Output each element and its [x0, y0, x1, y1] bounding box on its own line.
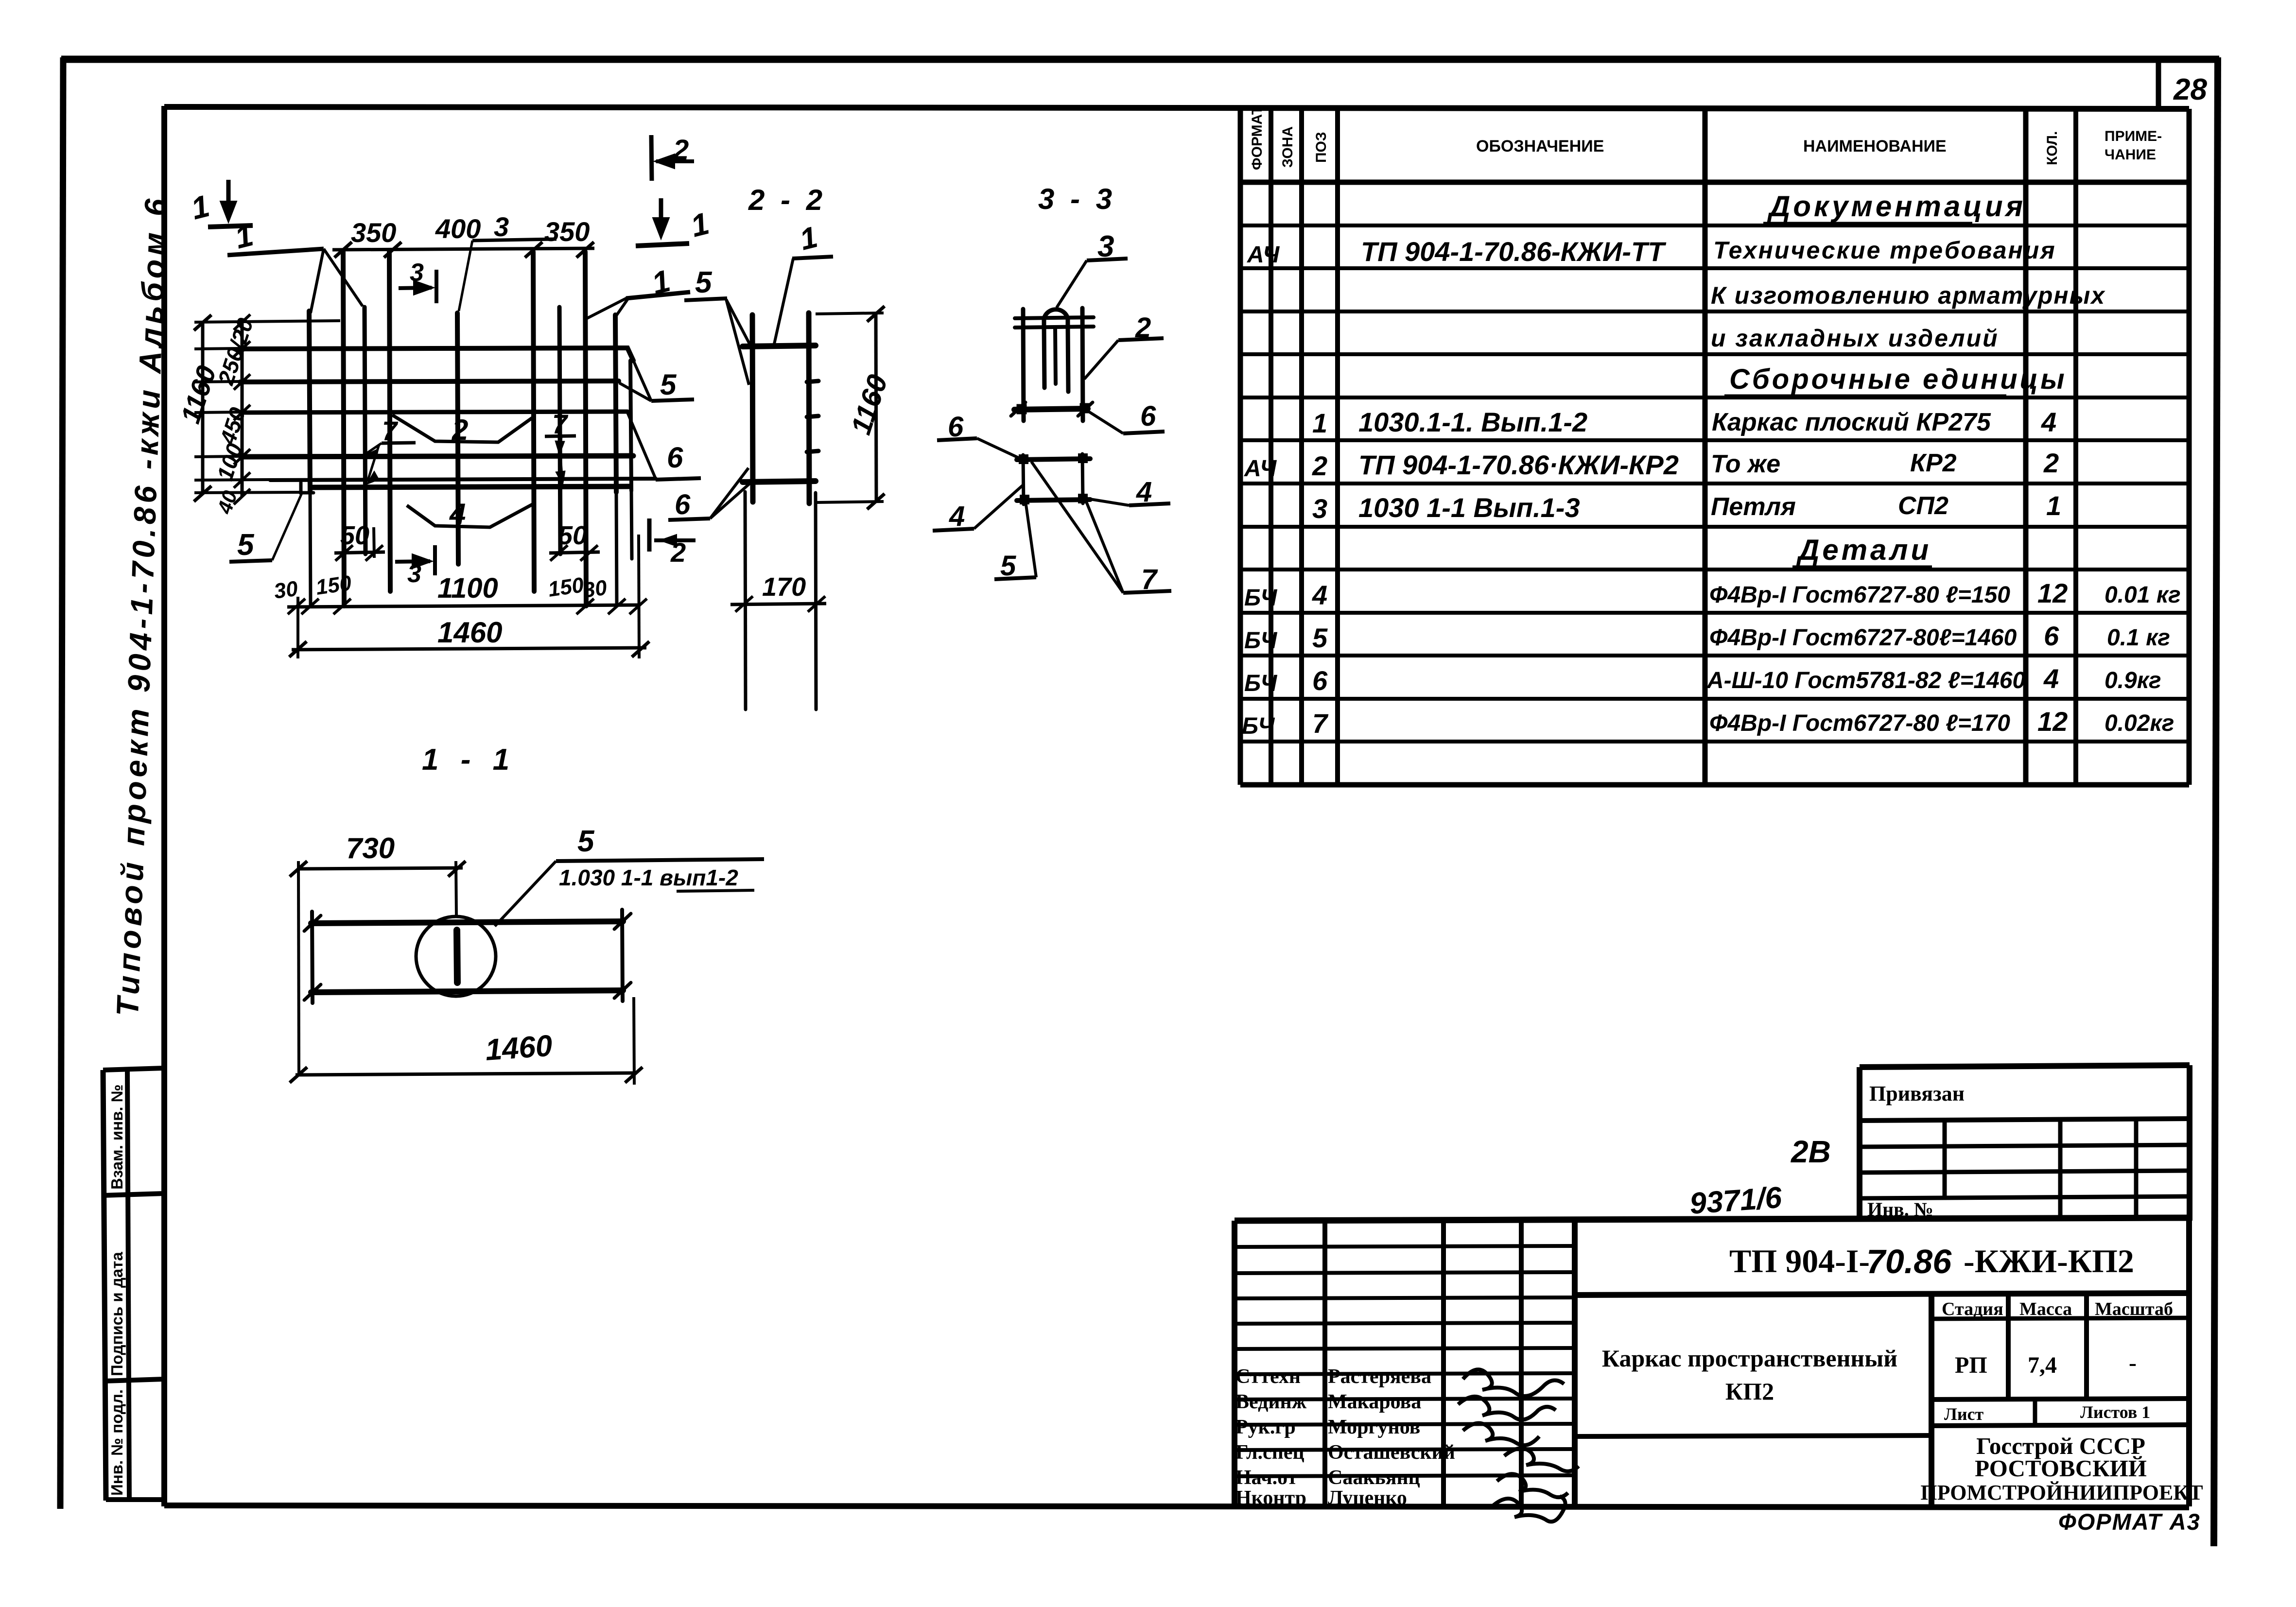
wire H2 — [240, 381, 619, 382]
bar V2a — [343, 252, 344, 606]
leader 5 right-mid — [619, 362, 694, 401]
svg-text:БЧ: БЧ — [1242, 713, 1275, 739]
section top chord — [743, 346, 816, 346]
svg-text:Луценко: Луценко — [1328, 1487, 1407, 1509]
dim 1160 (section 2-2) — [816, 306, 885, 509]
svg-text:Макарова: Макарова — [1328, 1391, 1421, 1413]
svg-text:3: 3 — [494, 211, 509, 242]
leader 4 right (mesh square) — [1087, 499, 1170, 505]
svg-text:3: 3 — [1312, 493, 1327, 524]
svg-text:30: 30 — [582, 575, 609, 602]
svg-text:Сборочные единицы: Сборочные единицы — [1729, 363, 2067, 395]
leader 6 right (H5 shelf) — [627, 413, 701, 480]
svg-text:ТП 904-I-: ТП 904-I- — [1729, 1243, 1870, 1279]
extension verticals below — [745, 492, 746, 709]
svg-text:ТП 904-1-70.86-КЖИ-ТТ: ТП 904-1-70.86-КЖИ-ТТ — [1361, 236, 1667, 267]
svg-text:Моргунов: Моргунов — [1328, 1416, 1420, 1438]
leader 7 right — [545, 436, 576, 485]
name cell right — [1929, 1294, 1934, 1506]
loop leg left — [1044, 325, 1044, 388]
leader 6 (section 3-3 top) — [1089, 412, 1165, 433]
svg-text:А-Ш-10 Гост5781-82 ℓ=1460: А-Ш-10 Гост5781-82 ℓ=1460 — [1706, 668, 2026, 693]
svg-text:БЧ: БЧ — [1244, 671, 1277, 696]
table vertical: oboznachenie col — [1703, 108, 1708, 785]
leader 2 (section 3-3) — [1084, 338, 1164, 379]
right outline V8 — [630, 361, 631, 491]
inner frame bottom — [164, 1505, 2189, 1507]
mesh square (section 3-3 bottom) — [1017, 454, 1090, 504]
leader 5 bottom-left — [229, 493, 302, 562]
svg-text:НАИМЕНОВАНИЕ: НАИМЕНОВАНИЕ — [1803, 137, 1947, 156]
section marker 1 top-left — [208, 180, 253, 227]
svg-text:АЧ: АЧ — [1247, 242, 1280, 268]
svg-text:7,4: 7,4 — [2028, 1352, 2057, 1378]
svg-text:6: 6 — [1312, 665, 1328, 696]
svg-text:Лист: Лист — [1944, 1404, 1984, 1424]
section marker 1 top-right — [636, 198, 689, 246]
svg-text:ЗОНА: ЗОНА — [1280, 126, 1296, 168]
list row bottom — [1931, 1425, 2189, 1426]
svg-text:Инв. № подл.: Инв. № подл. — [108, 1389, 126, 1496]
svg-text:400: 400 — [435, 213, 481, 244]
svg-text:1030 1-1 Вып.1-3: 1030 1-1 Вып.1-3 — [1358, 492, 1580, 523]
stadia header underlines — [1931, 1318, 2189, 1319]
svg-text:9371/6: 9371/6 — [1688, 1181, 1783, 1221]
loop frame left — [1023, 309, 1024, 421]
svg-text:Листов 1: Листов 1 — [2080, 1402, 2150, 1422]
bar V6b — [585, 252, 586, 606]
svg-text:Технические требования: Технические требования — [1713, 237, 2056, 264]
svg-text:Ф4Вр-I Гост6727-80 ℓ=150: Ф4Вр-I Гост6727-80 ℓ=150 — [1709, 582, 2010, 608]
bar top line — [311, 921, 623, 923]
signature scribbles — [1458, 1369, 1579, 1521]
outline corner bottom-left — [301, 483, 313, 493]
leader 7 left — [364, 443, 416, 484]
svg-text:3: 3 — [1097, 230, 1114, 263]
bar V5 — [533, 252, 534, 591]
svg-text:Рук.гр: Рук.гр — [1235, 1416, 1296, 1438]
stub lines — [194, 321, 340, 322]
svg-text:0.9кг: 0.9кг — [2105, 668, 2161, 693]
bottom bar — [1014, 409, 1088, 410]
top wires — [1015, 317, 1094, 318]
chain ticks — [234, 314, 250, 330]
svg-text:7: 7 — [1312, 708, 1329, 739]
svg-text:5: 5 — [237, 528, 255, 562]
svg-text:Масштаб: Масштаб — [2095, 1299, 2173, 1319]
table bottom — [1240, 782, 2189, 788]
bar V4 — [457, 313, 458, 564]
table vertical: format col — [1269, 108, 1273, 785]
underline dokumentacija — [1763, 222, 1972, 225]
svg-text:2: 2 — [452, 414, 468, 446]
svg-text:Вединж: Вединж — [1235, 1391, 1307, 1413]
title block top — [1235, 1218, 2189, 1221]
svg-text:350: 350 — [351, 217, 396, 248]
inner frame top — [164, 107, 2189, 109]
list row top — [1931, 1399, 2189, 1400]
svg-text:0.1 кг: 0.1 кг — [2107, 625, 2170, 651]
underline sborochnye — [1724, 395, 2006, 398]
dim 1460 (view 1-1) — [290, 997, 643, 1085]
svg-text:4: 4 — [949, 501, 965, 532]
sidebar divider 1 — [104, 1193, 164, 1195]
wire H3 — [242, 412, 627, 413]
svg-text:12: 12 — [2037, 578, 2068, 608]
svg-text:-: - — [2129, 1350, 2137, 1376]
svg-text:ПОЗ: ПОЗ — [1313, 132, 1329, 163]
svg-text:6: 6 — [667, 441, 683, 474]
svg-text:0.02кг: 0.02кг — [2105, 710, 2174, 736]
svg-text:1 - 1: 1 - 1 — [422, 743, 516, 777]
svg-text:Ф4Вр-I Гост6727-80ℓ=1460: Ф4Вр-I Гост6727-80ℓ=1460 — [1709, 625, 2017, 651]
svg-text:4: 4 — [449, 498, 466, 530]
svg-text:АЧ: АЧ — [1244, 456, 1277, 482]
svg-text:ЧАНИЕ: ЧАНИЕ — [2105, 147, 2156, 163]
TITLE BLOCK — [1235, 1218, 2189, 1506]
leader 3 (section 3-3) — [1057, 259, 1128, 308]
svg-text:150: 150 — [314, 571, 353, 600]
section marker 2 bottom-right — [649, 518, 696, 552]
svg-text:РОСТОВСКИЙ: РОСТОВСКИЙ — [1975, 1455, 2147, 1482]
table vertical: zona col — [1299, 108, 1304, 785]
bar V1 — [309, 311, 310, 492]
svg-text:7: 7 — [552, 409, 569, 439]
section bottom chord — [743, 481, 816, 482]
section marker 3 bottom — [395, 545, 435, 575]
table vertical: left edge — [1238, 108, 1243, 785]
svg-text:Инв. №: Инв. № — [1867, 1198, 1933, 1220]
svg-text:170: 170 — [762, 572, 806, 602]
svg-text:1030.1-1. Вып.1-2: 1030.1-1. Вып.1-2 — [1358, 407, 1587, 437]
sidebar top — [103, 1068, 164, 1070]
svg-text:5: 5 — [577, 825, 595, 858]
svg-text:То же: То же — [1711, 450, 1780, 478]
svg-text:5: 5 — [1312, 622, 1328, 653]
svg-text:350: 350 — [544, 216, 590, 247]
PRIVYAZAN BOX — [1860, 1065, 2190, 1221]
dim 1460 — [289, 641, 649, 657]
SIDEBAR — [103, 1068, 164, 1501]
name cell bottom — [1575, 1435, 1931, 1436]
svg-text:5: 5 — [695, 266, 713, 299]
leader 5 (view 1-1) — [495, 859, 764, 926]
wire H4 — [242, 456, 633, 457]
svg-text:Осташевский: Осташевский — [1328, 1441, 1455, 1464]
svg-text:1460: 1460 — [437, 616, 502, 649]
table vertical: right edge — [2187, 109, 2192, 785]
extension verticals — [296, 597, 299, 658]
svg-text:1.030 1-1 вып1-2: 1.030 1-1 вып1-2 — [559, 865, 738, 890]
section marker 3 top — [399, 270, 436, 303]
svg-text:Сттехн: Сттехн — [1235, 1365, 1301, 1388]
sidebar divider 2 — [104, 1379, 164, 1381]
bottom 50 dims — [334, 527, 600, 561]
svg-text:ОБОЗНАЧЕНИЕ: ОБОЗНАЧЕНИЕ — [1476, 137, 1604, 156]
outer border top — [61, 56, 2219, 63]
svg-text:50: 50 — [558, 521, 587, 550]
bar bottom line — [311, 990, 623, 992]
svg-text:3 - 3: 3 - 3 — [1038, 183, 1116, 215]
bar V2b — [365, 307, 365, 554]
inner wire — [1055, 328, 1056, 384]
weld circle — [416, 916, 496, 996]
svg-text:1: 1 — [2046, 490, 2061, 521]
svg-text:4: 4 — [1312, 580, 1327, 610]
svg-text:Ф4Вр-I Гост6727-80 ℓ=170: Ф4Вр-I Гост6727-80 ℓ=170 — [1709, 710, 2010, 736]
bar V7 — [615, 315, 616, 492]
left end vertical — [312, 912, 313, 1003]
svg-text:6: 6 — [948, 411, 964, 443]
svg-text:Петля: Петля — [1711, 493, 1796, 521]
sidebar left vertical — [103, 1070, 106, 1501]
leader 3 to middle bar — [459, 239, 557, 311]
leader 4 left (mesh square) — [933, 485, 1023, 531]
svg-text:2В: 2В — [1791, 1134, 1831, 1169]
svg-text:Взам. инв. №: Взам. инв. № — [108, 1084, 126, 1190]
svg-text:3: 3 — [407, 560, 421, 588]
svg-text:ФОРМАТ: ФОРМАТ — [1249, 106, 1265, 170]
loop frame right — [1082, 308, 1083, 421]
svg-text:5: 5 — [1000, 550, 1016, 582]
leader 6 lower (points to section 2-2) — [668, 468, 751, 520]
loop arc — [1044, 310, 1068, 325]
svg-text:1: 1 — [1312, 408, 1327, 438]
dim 730 (view 1-1) — [290, 861, 466, 1076]
list divider — [2033, 1400, 2037, 1426]
sidebar bottom — [106, 1497, 164, 1502]
svg-text:70.86: 70.86 — [1866, 1243, 1952, 1280]
svg-text:2: 2 — [2043, 448, 2059, 478]
svg-text:К изготовлению арматурных: К изготовлению арматурных — [1711, 282, 2105, 309]
signature rows — [1235, 1365, 1455, 1509]
svg-text:1100: 1100 — [437, 572, 498, 604]
svg-text:ПРОМСТРОЙНИИПРОЕКТ: ПРОМСТРОЙНИИПРОЕКТ — [1920, 1481, 2203, 1504]
designation cell bottom — [1575, 1293, 2189, 1295]
bottom bar end blobs — [1017, 404, 1026, 414]
callout 2 trapezoid — [392, 415, 534, 442]
svg-text:ФОРМАТ А3: ФОРМАТ А3 — [2058, 1509, 2201, 1535]
table header bottom — [1240, 180, 2189, 185]
svg-text:2: 2 — [1135, 312, 1151, 344]
svg-text:28: 28 — [2173, 73, 2207, 106]
signature area rows — [1235, 1246, 1575, 1247]
svg-text:6: 6 — [2044, 621, 2059, 651]
leader 1 top-left — [227, 249, 363, 313]
signature area verticals — [1232, 1221, 1237, 1506]
svg-text:Подпись и дата: Подпись и дата — [108, 1252, 126, 1376]
svg-text:30: 30 — [273, 576, 300, 603]
svg-text:7: 7 — [382, 415, 399, 446]
svg-text:СП2: СП2 — [1898, 492, 1948, 520]
leader 6 (mesh square) — [937, 438, 1022, 459]
svg-text:РП: РП — [1955, 1352, 1987, 1378]
bar V6a — [559, 307, 560, 554]
svg-text:Документация: Документация — [1767, 190, 2026, 223]
table row lines — [1240, 224, 2189, 227]
right end vertical — [622, 910, 623, 1001]
svg-text:КОЛ.: КОЛ. — [2044, 131, 2060, 165]
svg-text:3: 3 — [410, 259, 424, 287]
svg-text:Нач.от: Нач.от — [1235, 1467, 1298, 1489]
svg-text:730: 730 — [346, 832, 395, 864]
spec table body text — [1242, 190, 2181, 739]
svg-text:Привязан: Привязан — [1869, 1082, 1965, 1106]
svg-text:7: 7 — [1141, 564, 1158, 595]
left dim 1160 — [194, 314, 340, 504]
svg-text:ПРИМЕ-: ПРИМЕ- — [2105, 128, 2162, 144]
svg-text:4: 4 — [2041, 407, 2056, 437]
table vertical: poz col — [1335, 108, 1340, 785]
svg-text:БЧ: БЧ — [1244, 585, 1277, 611]
leader 1 (section 2-2) — [774, 257, 833, 346]
svg-text:50: 50 — [340, 521, 369, 550]
dim 1100 — [287, 535, 647, 658]
sidebar middle vertical — [127, 1070, 129, 1501]
table vertical: kol col — [2073, 108, 2078, 785]
bar V7 extension — [616, 492, 617, 606]
bar V1 extension — [310, 492, 311, 606]
svg-text:0.01 кг: 0.01 кг — [2105, 582, 2181, 608]
section bar left — [752, 315, 753, 502]
svg-text:12: 12 — [2037, 706, 2068, 737]
inner frame left — [161, 106, 167, 1506]
SPEC TABLE — [1240, 108, 2189, 785]
wire H5 — [270, 479, 656, 480]
callout 4 trapezoid — [407, 503, 534, 527]
table vertical: naimenovanie col — [2023, 108, 2029, 785]
leader 5 (mesh square) — [994, 501, 1036, 579]
svg-text:и закладных изделий: и закладных изделий — [1711, 325, 1999, 352]
weld mark — [457, 930, 457, 983]
wire H1 — [240, 348, 633, 361]
left chain line — [241, 322, 244, 496]
svg-text:6: 6 — [1140, 400, 1156, 432]
outer border right — [2214, 57, 2218, 1546]
svg-text:Детали: Детали — [1796, 534, 1931, 566]
leader 1 top-right — [586, 292, 690, 319]
section marker 2 top-right — [651, 135, 694, 181]
svg-text:КР2: КР2 — [1910, 449, 1957, 477]
leader 7 (mesh square) — [1031, 462, 1171, 593]
svg-text:Гл.спец: Гл.спец — [1235, 1441, 1305, 1464]
svg-text:Саакьянц: Саакьянц — [1328, 1467, 1420, 1489]
corner dots — [1019, 454, 1028, 464]
end slashes — [304, 916, 321, 931]
wire H6 — [311, 486, 629, 487]
svg-text:2: 2 — [1312, 450, 1327, 481]
svg-text:Масса: Масса — [2019, 1299, 2072, 1319]
outer border left — [60, 57, 63, 1509]
svg-text:2: 2 — [670, 537, 686, 568]
leader 5 (section 2-2) — [684, 298, 751, 385]
page number box left edge — [2156, 61, 2161, 107]
svg-text:Каркас пространственный: Каркас пространственный — [1602, 1345, 1897, 1372]
right outline stub — [631, 491, 632, 559]
bottom bar end ticks — [1011, 402, 1026, 416]
svg-text:Стадия: Стадия — [1942, 1299, 2003, 1319]
svg-text:Каркас плоский КР275: Каркас плоский КР275 — [1712, 408, 1991, 436]
svg-text:2 - 2: 2 - 2 — [748, 184, 826, 216]
svg-text:4: 4 — [1136, 476, 1152, 508]
svg-text:Растеряева: Растеряева — [1328, 1365, 1431, 1388]
svg-text:ТП 904-1-70.86·КЖИ-КР2: ТП 904-1-70.86·КЖИ-КР2 — [1358, 449, 1679, 480]
title block right edge — [2186, 1218, 2192, 1506]
svg-text:КП2: КП2 — [1725, 1378, 1774, 1405]
dim 170 (section 2-2) — [731, 596, 826, 612]
svg-text:-КЖИ-КП2: -КЖИ-КП2 — [1964, 1243, 2134, 1279]
section bar right — [809, 313, 809, 503]
svg-text:150: 150 — [547, 573, 586, 602]
svg-text:Нконтр: Нконтр — [1235, 1487, 1306, 1509]
bar V3 — [389, 252, 390, 591]
svg-text:6: 6 — [675, 489, 691, 520]
svg-text:4: 4 — [2043, 663, 2059, 694]
wire end ticks — [807, 381, 818, 382]
loop leg right — [1068, 325, 1068, 392]
svg-text:БЧ: БЧ — [1244, 628, 1277, 654]
underline detali — [1792, 566, 1932, 569]
top dim 350-400-350 — [332, 242, 594, 258]
svg-text:1460: 1460 — [484, 1029, 553, 1067]
svg-text:5: 5 — [660, 368, 677, 401]
svg-text:2: 2 — [673, 134, 689, 166]
